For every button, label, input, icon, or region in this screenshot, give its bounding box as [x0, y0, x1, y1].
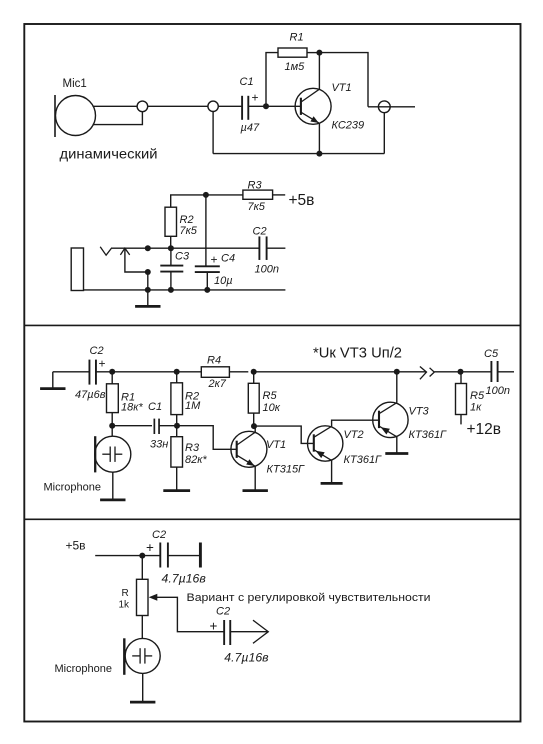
ground R3 — [163, 489, 190, 491]
svg-text:R5: R5 — [263, 390, 278, 402]
wire C1 to VT1 base — [248, 105, 301, 107]
wire wiper to C2 out — [157, 597, 225, 631]
capacitor C2 bottom1 — [160, 543, 168, 568]
signal direction chevron 1 — [420, 367, 427, 380]
microphone body bottom — [124, 638, 160, 675]
svg-text:+12в: +12в — [467, 421, 502, 438]
transistor VT1 mid — [231, 431, 267, 467]
wire top rail — [177, 371, 202, 373]
ground VT2 — [321, 482, 343, 484]
svg-text:R1: R1 — [290, 31, 304, 43]
wire R2 to node — [176, 415, 178, 426]
wire output horizontal through connector — [368, 106, 415, 108]
signal direction chevron 2 — [430, 368, 435, 377]
svg-text:10µ: 10µ — [214, 275, 233, 287]
wire junction down to R pot — [141, 556, 143, 580]
wire rail to R1 — [111, 372, 113, 384]
capacitor C2 — [259, 236, 266, 260]
resistor R1 mid — [107, 384, 119, 413]
wire R3 junction down to C4 — [205, 195, 207, 267]
wire mic bottom to connector X1 — [93, 112, 143, 125]
wire output connector down — [383, 113, 385, 154]
wire +5в feed — [95, 555, 160, 557]
resistor R3 mid — [171, 437, 183, 467]
svg-text:82к*: 82к* — [185, 454, 207, 466]
node C3/R2 top dot — [168, 245, 174, 251]
transistor VT1 — [295, 88, 331, 124]
wire connector X2 down to rail — [212, 112, 214, 154]
jack break contact — [100, 247, 112, 256]
svg-text:C5: C5 — [484, 348, 499, 360]
resistor R5 mid — [248, 383, 259, 413]
jack moving contact arrow — [120, 248, 129, 255]
svg-text:10к: 10к — [263, 402, 281, 414]
node C4-rail junction — [204, 287, 210, 293]
svg-text:КТ361Г: КТ361Г — [344, 454, 383, 466]
wire R1 right to collector node — [307, 52, 319, 54]
wire VT2 emitter down — [331, 460, 333, 483]
wire R4 right to R5 — [229, 371, 248, 373]
svg-text:КС239: КС239 — [332, 120, 365, 132]
svg-text:1м5: 1м5 — [285, 61, 306, 73]
wire R1 to mic node — [111, 413, 113, 437]
wire VT1 emitter down — [254, 466, 256, 490]
svg-text:C1: C1 — [240, 76, 254, 88]
connector X2 — [208, 101, 218, 111]
resistor R5 out — [456, 384, 467, 415]
svg-text:µ47: µ47 — [241, 122, 260, 134]
node middle junction — [145, 269, 151, 275]
section separator 2 — [24, 518, 520, 520]
microphone body — [95, 436, 131, 472]
svg-text:C2: C2 — [253, 226, 267, 238]
node rail-R5out junction — [458, 369, 464, 375]
wire rail to R5 out — [460, 372, 462, 384]
potentiometer wiper arrow — [149, 594, 158, 601]
wire VT1 collector up — [254, 426, 256, 432]
svg-text:C2: C2 — [216, 605, 230, 617]
svg-text:VT1: VT1 — [266, 439, 286, 451]
node R5-VT1 collector junction — [251, 423, 257, 429]
wire connector X1 to connector X2 — [148, 105, 208, 107]
wire rail R5 to chevrons — [254, 371, 427, 373]
node rail-C3 dot — [168, 287, 174, 293]
svg-text:100n: 100n — [486, 385, 510, 397]
wire VT3 collector up to rail — [396, 372, 398, 403]
terminal bar — [199, 543, 202, 568]
wire R pot to microphone — [141, 616, 143, 639]
wire R5 out down — [460, 415, 462, 425]
transistor VT3 — [373, 402, 408, 437]
ground left — [40, 372, 65, 389]
wire node to R3 — [176, 426, 178, 437]
wire connector X2 to C1 — [218, 105, 241, 107]
resistor R2 mid — [171, 383, 183, 415]
wire VT2 collector to VT3 base — [332, 420, 379, 426]
svg-text:динамический: динамический — [60, 145, 158, 161]
wire emitter vertical — [318, 123, 320, 153]
resistor R1 — [278, 48, 307, 57]
wire bottom return rail — [213, 153, 384, 155]
svg-text:7к5: 7к5 — [248, 201, 266, 213]
section separator 1 — [24, 324, 520, 326]
ground — [135, 290, 160, 307]
wire R3 right to +5v — [273, 194, 286, 196]
svg-text:КТ361Г: КТ361Г — [409, 429, 448, 441]
wire R5 to collector node — [253, 413, 255, 426]
wire collector node to output corner — [319, 53, 368, 107]
node collector junction — [316, 50, 322, 56]
wire C5 right — [498, 371, 514, 373]
capacitor C3 top lead — [170, 248, 172, 266]
capacitor C2 — [89, 360, 96, 385]
wire C2 out to arrow — [230, 631, 268, 633]
svg-text:C2: C2 — [152, 529, 166, 541]
svg-text:1к: 1к — [470, 401, 482, 413]
svg-text:1M: 1M — [185, 400, 201, 412]
svg-text:Microphone: Microphone — [44, 482, 101, 494]
resistor R4 — [201, 367, 229, 378]
wire ground to C2 — [53, 371, 90, 373]
microphone Mic1 membrane bar — [54, 95, 56, 137]
ground bottom — [130, 701, 155, 703]
svg-text:1k: 1k — [119, 599, 131, 610]
wire mic top to connector X1 — [93, 105, 138, 107]
svg-text:Microphone: Microphone — [55, 663, 112, 675]
svg-text:VT1: VT1 — [332, 82, 352, 94]
svg-text:R3: R3 — [185, 442, 200, 454]
svg-text:VT3: VT3 — [409, 406, 430, 418]
svg-text:+5в: +5в — [289, 192, 315, 209]
capacitor C4 bottom lead — [206, 272, 208, 290]
node rail-VT3 junction — [394, 369, 400, 375]
wire C1 to R2R3 node — [159, 425, 177, 427]
capacitor C3 bottom lead — [170, 272, 172, 290]
resistor R2 — [165, 207, 177, 236]
capacitor C1 — [242, 96, 248, 120]
wire R3 to ground — [176, 467, 178, 490]
node emitter-rail junction — [316, 151, 322, 157]
jack socket body — [71, 248, 83, 291]
svg-text:Mic1: Mic1 — [63, 78, 87, 90]
svg-text:33н: 33н — [150, 439, 168, 451]
node rail-R5 junction — [251, 369, 257, 375]
capacitor C3 — [160, 266, 183, 272]
capacitor C2 bottom2 — [224, 620, 230, 645]
node R2-R3-C1 junction — [174, 423, 180, 429]
wire middle junction to rail — [147, 272, 149, 290]
svg-text:2к7: 2к7 — [208, 378, 227, 390]
svg-text:R5: R5 — [470, 390, 485, 402]
node base junction — [263, 103, 269, 109]
node C2-R1 junction — [109, 369, 115, 375]
svg-text:Вариант с регулировкой чувстви: Вариант с регулировкой чувствительности — [187, 592, 431, 604]
connector output X3 — [378, 101, 390, 113]
wire rail to R2 — [176, 372, 178, 383]
node rail-ground dot — [145, 287, 151, 293]
capacitor C5 — [491, 361, 497, 382]
wire C2 right — [267, 247, 286, 249]
wire R2 bottom — [170, 236, 172, 248]
wire jack tip line — [112, 247, 259, 249]
svg-text:R2: R2 — [180, 214, 194, 226]
ground microphone — [100, 499, 125, 501]
output arrow — [253, 620, 268, 643]
connector X1 — [137, 101, 148, 112]
node rail-R2 junction — [174, 369, 180, 375]
wire C2 to R2 top — [96, 371, 177, 373]
svg-text:*Uк VT3 Uп/2: *Uк VT3 Uп/2 — [313, 345, 402, 362]
svg-text:+: + — [211, 253, 218, 267]
ground VT1 — [243, 489, 268, 491]
capacitor C4 — [195, 266, 220, 272]
wire base node up to R1 left — [266, 53, 278, 107]
svg-text:C2: C2 — [90, 345, 104, 357]
transistor VT2 — [308, 426, 343, 461]
wire mic to ground — [112, 472, 114, 500]
wire collector node to VT2 base — [254, 426, 314, 443]
wire collector vertical — [318, 53, 320, 90]
wire node to VT1 base — [177, 426, 237, 450]
microphone Mic1 body — [56, 96, 96, 136]
svg-text:R4: R4 — [207, 355, 221, 367]
svg-text:+: + — [146, 540, 154, 555]
wire mic node to C1 — [112, 425, 152, 427]
node feed junction — [139, 553, 145, 559]
svg-text:+: + — [210, 618, 218, 633]
svg-text:C4: C4 — [221, 252, 235, 264]
resistor R3 — [243, 190, 273, 199]
node tip-line dot — [145, 245, 151, 251]
capacitor C1 mid — [154, 419, 159, 434]
wire R3 left to R2 top — [171, 195, 243, 207]
svg-text:7к5: 7к5 — [180, 225, 198, 237]
wire VT3 emitter down — [396, 437, 398, 453]
wire moving contact down and right — [125, 248, 148, 272]
potentiometer R body — [137, 579, 149, 615]
wire chevrons to C5 — [434, 371, 491, 373]
svg-text:4.7µ16в: 4.7µ16в — [224, 651, 269, 665]
svg-text:C3: C3 — [175, 250, 190, 262]
svg-text:+: + — [252, 91, 259, 105]
ground VT3 — [385, 452, 408, 454]
wire mic to ground bottom — [142, 673, 144, 702]
node R3-C4 junction — [203, 192, 209, 198]
wire ground rail — [84, 289, 286, 291]
svg-text:100n: 100n — [255, 264, 279, 276]
svg-text:+5в: +5в — [66, 538, 86, 552]
svg-text:+: + — [99, 357, 106, 371]
wire rail to R5 — [253, 372, 255, 384]
svg-text:VT2: VT2 — [344, 429, 364, 441]
svg-text:R: R — [122, 588, 129, 599]
svg-text:C1: C1 — [148, 401, 162, 413]
svg-text:47µ6в: 47µ6в — [75, 389, 106, 401]
wire C2 to terminal — [168, 555, 199, 557]
svg-text:4.7µ16в: 4.7µ16в — [162, 571, 207, 585]
svg-text:18к*: 18к* — [121, 401, 143, 413]
svg-text:КТ315Г: КТ315Г — [267, 463, 306, 475]
node R1-mic-C1 junction — [109, 423, 115, 429]
